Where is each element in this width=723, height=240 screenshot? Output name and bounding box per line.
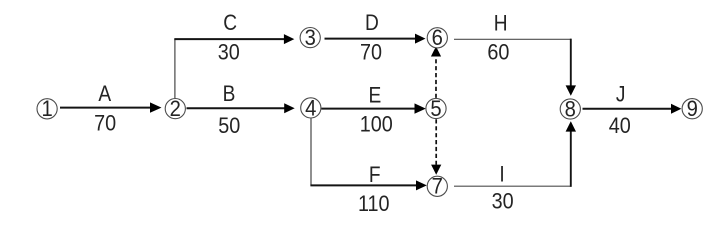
svg-text:8: 8 bbox=[565, 98, 576, 122]
svg-text:2: 2 bbox=[170, 97, 181, 121]
svg-text:I: I bbox=[499, 162, 504, 187]
svg-text:30: 30 bbox=[218, 40, 240, 64]
svg-text:50: 50 bbox=[218, 114, 240, 138]
svg-text:9: 9 bbox=[687, 97, 698, 121]
wire I shaft 7->corner bbox=[454, 185, 571, 187]
svg-text:J: J bbox=[616, 82, 626, 107]
svg-text:7: 7 bbox=[432, 175, 443, 199]
svg-text:40: 40 bbox=[609, 114, 631, 138]
node 8 bbox=[560, 98, 580, 122]
wire F dropper 4 down to corner bbox=[310, 118, 312, 185]
arrowhead dummy 5->7 bbox=[431, 165, 441, 175]
dummy arrow 5->6 dashed bbox=[435, 57, 437, 98]
dummy arrow 5->7 dashed bbox=[435, 119, 437, 165]
svg-text:A: A bbox=[98, 82, 111, 107]
node 5 bbox=[426, 97, 446, 121]
wire J shaft 8->9 bbox=[583, 108, 673, 110]
node 2 bbox=[165, 97, 185, 121]
node 1 bbox=[37, 97, 57, 121]
svg-text:100: 100 bbox=[360, 113, 393, 137]
node 7 bbox=[427, 175, 447, 199]
arrowhead I bbox=[566, 121, 576, 131]
arrowhead J bbox=[671, 104, 681, 114]
arrowhead B bbox=[284, 103, 295, 113]
arrowhead H bbox=[566, 85, 576, 95]
wire E shaft 4->5 bbox=[321, 108, 415, 110]
arrowhead C bbox=[284, 34, 294, 44]
svg-text:30: 30 bbox=[492, 189, 514, 213]
svg-text:C: C bbox=[223, 11, 237, 36]
arrowhead dummy 5->6 bbox=[431, 46, 441, 56]
wire H shaft 6->corner bbox=[454, 38, 571, 40]
wire I riser corner->8 bbox=[570, 131, 572, 187]
svg-text:6: 6 bbox=[432, 26, 443, 50]
svg-text:F: F bbox=[369, 163, 381, 188]
wire C riser 2 up to corner bbox=[174, 39, 176, 98]
svg-text:3: 3 bbox=[305, 26, 316, 50]
svg-text:5: 5 bbox=[430, 97, 441, 121]
node 6 bbox=[427, 26, 447, 50]
wire F shaft corner->7 bbox=[310, 184, 416, 186]
svg-text:4: 4 bbox=[305, 97, 316, 121]
svg-text:1: 1 bbox=[41, 97, 52, 121]
node 4 bbox=[301, 97, 321, 121]
svg-text:110: 110 bbox=[358, 192, 390, 216]
node 3 bbox=[300, 26, 320, 50]
node 9 bbox=[682, 97, 702, 121]
arrowhead A bbox=[150, 102, 162, 112]
svg-text:B: B bbox=[223, 82, 236, 107]
svg-text:70: 70 bbox=[360, 40, 382, 64]
arrowhead E bbox=[415, 103, 426, 113]
arrowhead D bbox=[415, 34, 426, 44]
svg-text:H: H bbox=[494, 11, 508, 36]
svg-text:E: E bbox=[369, 83, 382, 108]
wire D shaft 3->6 bbox=[325, 38, 416, 40]
svg-text:70: 70 bbox=[94, 111, 116, 135]
wire B shaft 2->4 bbox=[187, 107, 286, 109]
svg-text:60: 60 bbox=[487, 40, 509, 64]
arrowhead F bbox=[416, 180, 427, 190]
wire H dropper corner->8 bbox=[570, 39, 572, 86]
wire A shaft 1->2 bbox=[60, 107, 151, 109]
svg-text:D: D bbox=[365, 11, 379, 36]
wire C shaft corner->3 bbox=[174, 38, 284, 40]
